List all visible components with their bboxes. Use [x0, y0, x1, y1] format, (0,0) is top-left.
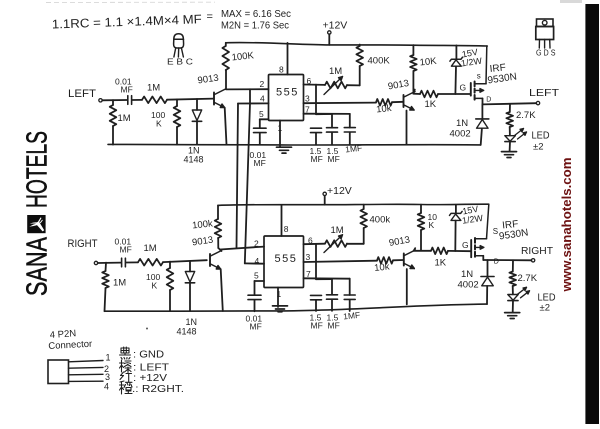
- svg-text:8: 8: [279, 65, 284, 75]
- svg-text:400K: 400K: [368, 56, 391, 67]
- svg-text:10k: 10k: [376, 103, 393, 116]
- svg-text:MF: MF: [328, 154, 340, 164]
- svg-text:1M: 1M: [118, 113, 131, 124]
- svg-text:4002: 4002: [458, 280, 479, 291]
- svg-text:MF: MF: [254, 158, 266, 168]
- svg-text:1K: 1K: [435, 258, 447, 269]
- svg-text:K: K: [156, 119, 162, 129]
- svg-text:400k: 400k: [370, 215, 391, 226]
- svg-text:1M: 1M: [113, 278, 126, 289]
- svg-text:3: 3: [305, 94, 310, 104]
- svg-text:+12V: +12V: [327, 185, 352, 197]
- svg-text:100k: 100k: [192, 218, 214, 231]
- svg-text:G D S: G D S: [536, 49, 556, 58]
- svg-text:±2: ±2: [533, 142, 544, 153]
- svg-text:3: 3: [306, 252, 311, 262]
- svg-text:1M: 1M: [144, 243, 157, 254]
- svg-text:2: 2: [254, 239, 259, 249]
- svg-text:1M: 1M: [329, 66, 342, 77]
- svg-text:SANA: SANA: [22, 237, 54, 296]
- svg-text:10K: 10K: [419, 56, 438, 69]
- svg-text:RIGHT: RIGHT: [521, 245, 554, 257]
- svg-text:M2N = 1.76 Sec: M2N = 1.76 Sec: [221, 20, 289, 32]
- svg-text:LEFT: LEFT: [529, 87, 560, 99]
- svg-text:: +12V: : +12V: [133, 373, 167, 384]
- svg-text:LED: LED: [532, 131, 550, 142]
- svg-text:4148: 4148: [184, 155, 204, 165]
- svg-text:1M: 1M: [147, 83, 160, 94]
- svg-text:1N: 1N: [186, 317, 198, 327]
- svg-text:5: 5: [259, 109, 264, 119]
- svg-text:D: D: [486, 97, 491, 104]
- svg-text:G: G: [462, 240, 469, 250]
- svg-text:LEFT: LEFT: [68, 88, 96, 100]
- svg-text:4: 4: [260, 94, 265, 104]
- svg-text:4: 4: [104, 382, 109, 392]
- svg-text:1N: 1N: [456, 118, 468, 129]
- svg-text:1K: 1K: [425, 99, 437, 110]
- svg-text:K: K: [152, 281, 158, 291]
- svg-text:1N: 1N: [461, 269, 473, 280]
- svg-text:4148: 4148: [177, 327, 197, 337]
- svg-text:MF: MF: [311, 154, 323, 164]
- svg-text:=: =: [207, 11, 213, 23]
- svg-text:8: 8: [284, 224, 289, 234]
- svg-text:1MF: 1MF: [343, 310, 361, 322]
- svg-text:G: G: [460, 83, 467, 93]
- svg-text:: GND: : GND: [133, 350, 164, 361]
- svg-text:±2: ±2: [540, 303, 551, 314]
- svg-text:s: s: [477, 72, 481, 81]
- svg-text:10k: 10k: [374, 261, 391, 274]
- svg-text:MAX = 6.16 Sec: MAX = 6.16 Sec: [221, 8, 291, 20]
- svg-text:: LEFT: : LEFT: [133, 363, 169, 374]
- svg-text:555: 555: [275, 253, 298, 265]
- svg-text:www.sanahotels.com: www.sanahotels.com: [559, 158, 574, 293]
- svg-text:1M: 1M: [331, 225, 344, 236]
- svg-text:555: 555: [276, 87, 299, 99]
- svg-text:MF: MF: [311, 321, 323, 331]
- svg-text:HOTELS: HOTELS: [22, 131, 54, 208]
- svg-text:RIGHT: RIGHT: [68, 238, 98, 250]
- svg-text:2: 2: [260, 79, 265, 89]
- svg-text:+12V: +12V: [323, 20, 348, 32]
- svg-text:MF: MF: [121, 85, 133, 95]
- svg-text:2.7K: 2.7K: [518, 273, 538, 284]
- svg-text:4: 4: [255, 256, 260, 266]
- svg-text:4002: 4002: [450, 129, 471, 140]
- svg-text:2.7K: 2.7K: [516, 110, 536, 121]
- svg-text:MF: MF: [120, 245, 132, 255]
- svg-text:.: R2GHT.: .: R2GHT.: [132, 384, 184, 395]
- svg-text:Connector: Connector: [48, 339, 92, 352]
- svg-text:S: S: [493, 227, 498, 236]
- svg-text:K: K: [429, 220, 435, 230]
- svg-text:E B C: E B C: [167, 57, 193, 67]
- svg-text:1: 1: [106, 353, 111, 363]
- svg-text:5: 5: [254, 271, 259, 281]
- svg-text:3: 3: [105, 372, 110, 382]
- svg-text:MF: MF: [328, 321, 340, 331]
- svg-text:MF: MF: [250, 322, 262, 332]
